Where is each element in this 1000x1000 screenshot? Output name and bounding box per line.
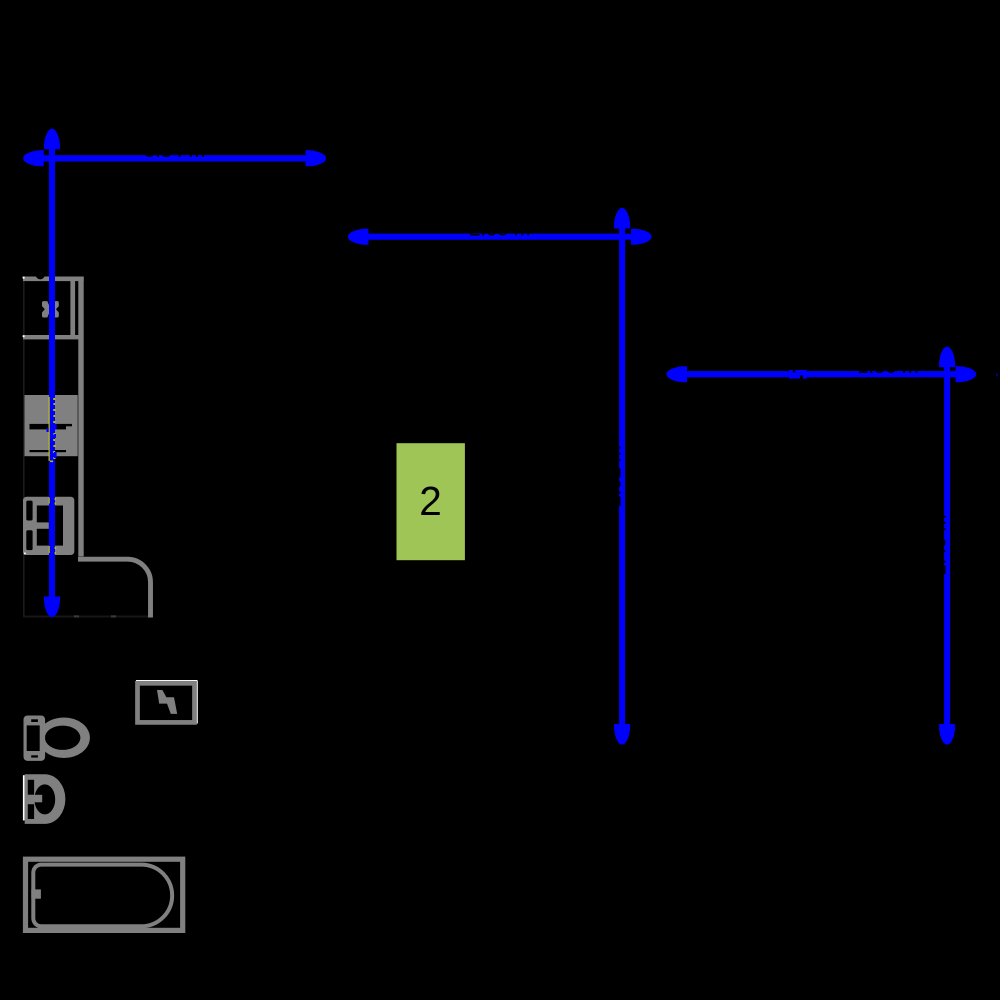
- picture frame white highlight top: [136, 680, 198, 681]
- stove block: [25, 395, 78, 456]
- picture frame white highlight right: [196, 681, 197, 724]
- washbasin body: [25, 774, 66, 824]
- wall left (faint): [23, 277, 25, 617]
- washbasin white edge: [23, 775, 25, 820]
- svg-text:1.56 m: 1.56 m: [857, 356, 918, 378]
- dimension C vertical arrow up: [939, 347, 955, 368]
- bathtub inner tub: [33, 865, 172, 927]
- toilet tank inner: [27, 725, 40, 751]
- dimension A horizontal arrow right: [306, 150, 327, 166]
- toilet tank top notch: [31, 719, 38, 722]
- white speck fridge top-left: [23, 277, 25, 279]
- toilet bowl ring: [38, 718, 90, 759]
- stove slot 2: [30, 450, 67, 452]
- fridge bottom bar: [23, 335, 79, 339]
- picture frame: [138, 683, 195, 722]
- dimension B vertical line: [619, 226, 625, 740]
- bathtub outer rect: [26, 859, 183, 930]
- washbasin left slot bottom: [28, 804, 34, 819]
- dimension A vertical arrow down: [44, 597, 60, 618]
- kitchen tall right bar: [78, 277, 83, 557]
- sink left slot top: [26, 501, 32, 521]
- lightning bolt in frame: [157, 690, 177, 714]
- dimension C horizontal line: [671, 371, 961, 377]
- dimension C horizontal arrow left: [666, 366, 687, 382]
- dimension B horizontal arrow right: [631, 229, 652, 245]
- bathtub faucet tab: [31, 889, 41, 898]
- yellow artifacts at sink crossings: [49, 498, 57, 555]
- washbasin left slot top: [28, 780, 34, 795]
- dimension B horizontal line: [352, 234, 632, 240]
- wall bottom kitchen (faint): [23, 616, 151, 618]
- svg-text:2: 2: [419, 478, 442, 524]
- svg-text:3.54 m: 3.54 m: [144, 140, 205, 162]
- dimension B vertical arrow down: [614, 724, 630, 745]
- wall right of counter (faint): [150, 600, 152, 617]
- washbasin faucet tab: [26, 795, 42, 803]
- svg-text:1.49 m: 1.49 m: [929, 514, 951, 575]
- svg-text:2.55 m: 2.55 m: [469, 218, 530, 240]
- kitchen top bar notch: [36, 270, 45, 280]
- dimension A vertical arrow up: [44, 129, 60, 150]
- dimension C vertical arrow down: [939, 724, 955, 745]
- toilet tank bottom notch: [31, 755, 38, 757]
- fan icon in fridge: [42, 301, 59, 317]
- dimension B horizontal arrow left: [348, 229, 369, 245]
- svg-text:2.61 m: 2.61 m: [604, 445, 626, 506]
- counter bottom with curve: [78, 559, 151, 617]
- dimension C artifact blob: [789, 370, 807, 379]
- white speck sink bottom-left: [24, 553, 26, 555]
- sink left slot bottom: [26, 530, 32, 550]
- white speck fridge bottom-left: [23, 335, 25, 337]
- room label box 2: [397, 443, 465, 560]
- stove slot 1 thin extension: [66, 424, 72, 426]
- dimension A vertical label artifacts (yellow): [47, 397, 57, 462]
- sink unit body: [23, 497, 74, 555]
- dimension B vertical arrow up: [614, 208, 630, 229]
- stove slot 1: [30, 424, 67, 430]
- washbasin bowl: [34, 784, 55, 814]
- stray blue speck right edge: [996, 373, 998, 375]
- dimension A horizontal line: [27, 155, 321, 161]
- sink faucet tab: [32, 522, 49, 528]
- kitchen top bar: [23, 277, 84, 282]
- dimension C vertical line: [944, 364, 950, 740]
- fridge right inner bar: [70, 281, 75, 339]
- dimension A vertical line: [49, 133, 55, 613]
- dimension A horizontal arrow left: [23, 150, 44, 166]
- sink cavity: [37, 506, 63, 546]
- toilet tank: [24, 716, 46, 761]
- dimension C horizontal arrow right: [956, 366, 977, 382]
